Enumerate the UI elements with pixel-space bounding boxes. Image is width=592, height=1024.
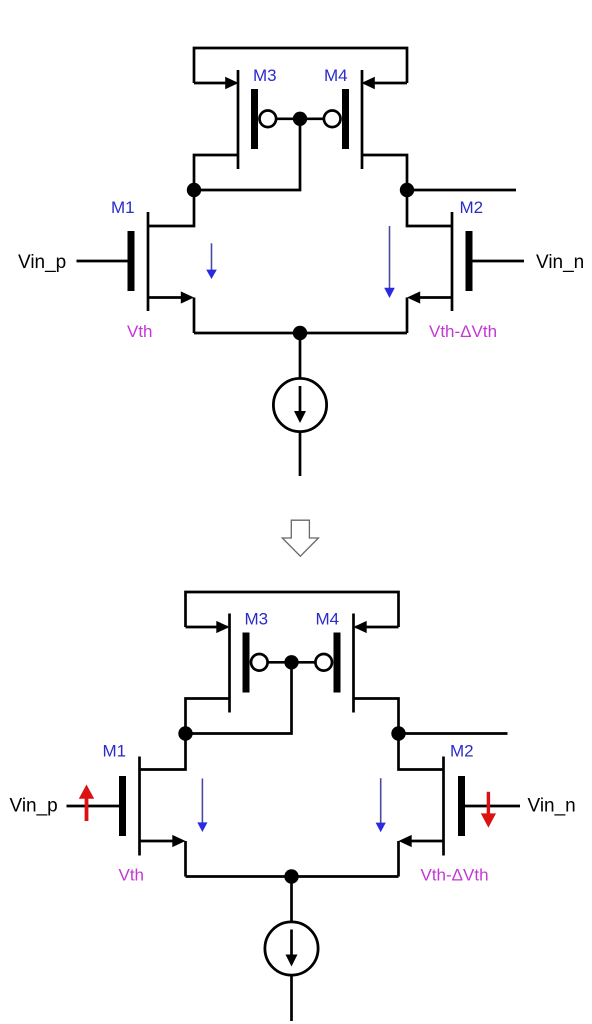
node B [400, 183, 414, 197]
wire M4 drain to node B (circuit 2) [354, 699, 399, 734]
wire tail rail (circuit 1) [194, 332, 407, 335]
wire tail rail (circuit 2) [186, 875, 399, 878]
svg-text:Vin_n: Vin_n [536, 252, 584, 273]
transistor M1 [77, 212, 195, 311]
node A [187, 183, 201, 197]
current arrow right (circuit 1, blue) [384, 226, 395, 298]
transistor M1 (circuit 2) [67, 757, 186, 856]
wire M1 source to tail (circuit 2) [184, 841, 187, 877]
wire output (circuit 2) [399, 732, 508, 735]
wire node A to M1 drain (circuit 2) [140, 734, 186, 770]
transistor M2 (circuit 2) [399, 757, 521, 856]
svg-text:Vth-ΔVth: Vth-ΔVth [421, 866, 489, 885]
arrow transition (hollow down arrow) [282, 520, 318, 556]
svg-text:M4: M4 [316, 610, 340, 629]
current arrow right (circuit 2, blue) [376, 778, 386, 832]
wire node A to M1 drain [148, 190, 194, 226]
wire output (circuit 1) [407, 189, 516, 192]
node B (circuit 2) [391, 726, 405, 740]
wire M1 source to tail [193, 298, 196, 334]
svg-text:Vin_p: Vin_p [18, 252, 66, 273]
transistor M2 [407, 212, 524, 311]
svg-text:M1: M1 [103, 742, 127, 761]
wire top VDD rail (circuit 2) [186, 592, 399, 627]
svg-text:M3: M3 [245, 610, 269, 629]
wire M2 source to tail [406, 298, 409, 334]
svg-text:M4: M4 [324, 66, 348, 85]
node gate (circuit 1) [293, 112, 307, 126]
wire gate link M3-M4 [276, 117, 324, 120]
wire node B to M2 drain [407, 190, 452, 226]
current source I1 (circuit 2) [265, 877, 318, 1022]
red arrow down on Vin_n (circuit 2) [481, 792, 496, 828]
svg-text:Vth-ΔVth: Vth-ΔVth [429, 322, 497, 341]
transistor M3 [194, 70, 276, 169]
wire gate to node A (circuit 2) [186, 662, 292, 733]
svg-text:M1: M1 [111, 198, 135, 217]
svg-text:M3: M3 [253, 66, 277, 85]
wire M3 drain to node A [194, 155, 238, 190]
node A (circuit 2) [178, 726, 192, 740]
node gate (circuit 2) [284, 655, 298, 669]
node tail (circuit 2) [284, 869, 298, 883]
svg-text:M2: M2 [460, 198, 484, 217]
wire M2 source to tail (circuit 2) [397, 841, 400, 877]
transistor M4 (circuit 2) [315, 614, 398, 713]
current source I1 [273, 333, 326, 476]
svg-text:Vth: Vth [127, 322, 153, 341]
wire M3 drain to node A (circuit 2) [186, 699, 230, 734]
node tail (circuit 1) [293, 326, 307, 340]
current arrow left (circuit 1, blue) [206, 243, 217, 279]
svg-text:M2: M2 [450, 742, 474, 761]
wire M4 drain to node B [362, 155, 407, 190]
wire top VDD rail (circuit 1) [194, 48, 407, 83]
wire gate to node A [195, 119, 301, 190]
transistor M3 (circuit 2) [186, 614, 268, 713]
transistor M4 [324, 70, 407, 169]
red arrow up on Vin_p (circuit 2) [79, 785, 94, 822]
svg-text:Vth: Vth [119, 866, 145, 885]
wire gate link M3-M4 (circuit 2) [268, 661, 316, 664]
wire node B to M2 drain (circuit 2) [399, 734, 444, 770]
current arrow left (circuit 2, blue) [197, 779, 207, 833]
svg-text:Vin_n: Vin_n [528, 796, 576, 817]
svg-text:Vin_p: Vin_p [10, 796, 58, 817]
